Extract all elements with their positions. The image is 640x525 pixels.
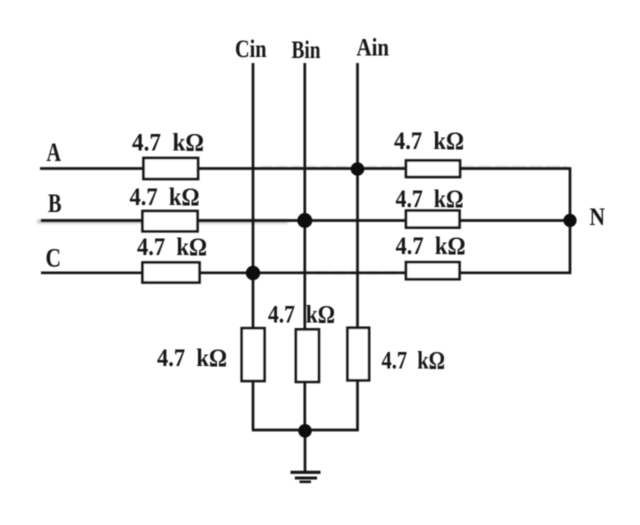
svg-text:N: N [590,204,606,231]
resistor 4.7 kOhm (line C, left) [143,263,200,283]
resistor 4.7 kOhm (line C to N, right) [406,262,460,279]
svg-text:4.7 kΩ: 4.7 kΩ [157,345,227,372]
svg-text:4.7 kΩ: 4.7 kΩ [396,186,464,213]
wire: bottom bus to ground [252,429,359,432]
svg-text:4.7 kΩ: 4.7 kΩ [394,128,464,155]
junction: line B with Bin [297,213,312,228]
wire: Bin vertical [303,63,306,430]
svg-text:4.7 kΩ: 4.7 kΩ [382,348,446,375]
svg-text:Ain: Ain [357,35,390,62]
resistor 4.7 kOhm (line A, left) [144,158,199,179]
svg-text:Bin: Bin [292,37,321,64]
svg-text:4.7 kΩ: 4.7 kΩ [396,233,466,260]
svg-text:A: A [47,138,62,167]
wire: phase line A horizontal [40,167,570,170]
wire: ground stem [304,430,307,472]
resistor 4.7 kOhm (line B, left) [143,211,198,231]
svg-text:4.7 kΩ: 4.7 kΩ [130,184,200,211]
svg-text:4.7 kΩ: 4.7 kΩ [137,234,207,261]
resistor 4.7 kOhm (line A to N, right) [406,161,460,178]
junction: bottom bus to ground [298,424,312,438]
ground [291,472,321,482]
svg-text:Cin: Cin [235,36,267,63]
svg-text:B: B [48,189,62,218]
resistor 4.7 kOhm (Cin branch, vertical) [242,328,265,381]
svg-text:4.7 kΩ: 4.7 kΩ [132,130,204,157]
resistor 4.7 kOhm (Ain branch, vertical) [348,328,370,381]
resistor 4.7 kOhm (line B to N, right) [406,211,460,228]
svg-text:C: C [46,244,62,273]
junction: line A with Ain [351,162,365,176]
svg-text:4.7 kΩ: 4.7 kΩ [268,302,335,329]
wire: Ain vertical [356,63,359,430]
wire: phase line C horizontal [41,271,571,274]
node N junction [563,214,576,227]
resistor 4.7 kOhm (Bin branch, vertical) [296,329,319,382]
wire: Cin vertical [252,63,255,430]
wire: right bus vertical to node N [569,167,572,274]
junction: line C with Cin [246,266,260,280]
wire: phase line B horizontal [41,219,570,222]
